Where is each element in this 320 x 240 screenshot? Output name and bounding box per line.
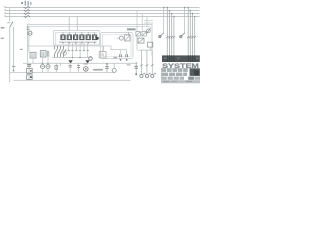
meter circle S1 [63, 52, 67, 56]
contactor row link [59, 41, 97, 43]
fuse F11 tick [12, 65, 16, 67]
cable W1 core 2 [169, 11, 171, 56]
label -Q1 [1, 27, 5, 29]
cable W2 core 2 [189, 11, 191, 56]
wire tap right 1 [136, 11, 138, 32]
label dash [127, 64, 131, 66]
cable W2 core 1 [187, 8, 189, 56]
cable W1 marker [159, 33, 164, 38]
wire X1 drop [103, 46, 105, 52]
incomer coil circle [28, 31, 32, 35]
contact pair CP1 [120, 50, 122, 61]
banner block [162, 55, 200, 62]
fuse Q0 pole 1 [24, 6, 30, 9]
fuse F12 [55, 63, 58, 72]
contactor K3 [74, 32, 78, 43]
divider wire [28, 46, 127, 50]
cable W2 core 3 [192, 14, 194, 56]
meter P1 [41, 65, 45, 69]
label TS35 [127, 28, 136, 30]
drop d3 [75, 43, 77, 51]
contactor K6 [92, 32, 96, 43]
title table row1 cells [162, 69, 188, 72]
wire stub pair [144, 21, 153, 23]
connector arrow B [85, 60, 89, 63]
panel inner bus [10, 71, 114, 73]
bus L2 [5, 10, 200, 12]
fuse F13a [69, 63, 72, 72]
cable W1 leader [163, 8, 165, 34]
fuse Q0 pole 2 [24, 9, 30, 12]
meter P3 [84, 64, 89, 71]
enclosure box A1 [28, 25, 153, 64]
socket drop 3 [151, 50, 156, 77]
relay box R2 [142, 32, 146, 36]
fuse F14 [105, 63, 109, 72]
cable W1 core 1 [166, 8, 168, 56]
label panel [93, 69, 103, 71]
label left 2 [1, 38, 4, 39]
panel bottom edge [14, 79, 131, 81]
bus L1 [5, 7, 200, 9]
fuse Q0 pole 3 [24, 12, 30, 15]
relay box R1 [136, 32, 140, 36]
logo block dark [190, 69, 200, 76]
fuse F15 [134, 62, 138, 75]
node W1 taps [167, 7, 169, 9]
cable W2 ticks [187, 36, 196, 38]
bus N [5, 16, 200, 18]
subpanel box [54, 31, 100, 46]
node W2 taps [187, 7, 189, 9]
contactor K5 [86, 32, 90, 43]
wire feeder drop [9, 8, 11, 22]
contactor K1 [61, 32, 65, 43]
switch group S1 [55, 46, 67, 57]
cable W2 marker [180, 33, 185, 38]
wire feeder vertical a [9, 27, 11, 82]
wire distribution [137, 36, 152, 50]
wire feeder vertical b [13, 27, 15, 72]
stub tick [59, 63, 61, 66]
drop d6 [87, 43, 89, 58]
terminal block T2 [40, 51, 49, 57]
banner cable streaks [167, 55, 194, 62]
cable W1 core 3 [171, 14, 173, 56]
relay box R3 [138, 38, 144, 43]
contactor K4 [80, 32, 84, 43]
bus L3 [5, 13, 200, 15]
meter circle mid [89, 57, 93, 61]
cable W2 core 4 [194, 17, 196, 56]
drop d4 [79, 43, 81, 58]
terminal box X1 [99, 52, 106, 58]
module box inner [103, 35, 132, 57]
device stack D1 [27, 63, 33, 79]
motor circle [119, 36, 123, 40]
label bus names [21, 1, 31, 6]
title table row3 cells [162, 77, 200, 80]
node feeder junction [13, 69, 15, 71]
label CP [114, 57, 117, 58]
drop d2 [71, 43, 73, 58]
drop d5 [83, 43, 85, 51]
socket drop 2 [145, 50, 150, 77]
cable W1 ticks [166, 36, 175, 38]
wire lower bus [52, 57, 92, 59]
wire incomer drop [28, 30, 30, 52]
switch S2 [147, 28, 151, 34]
wire tap right 2 [141, 14, 143, 32]
contact pair CP2 [126, 50, 128, 61]
incomer device bars [27, 27, 30, 29]
node bus junction 1 [72, 57, 74, 59]
title table border [161, 68, 199, 83]
breaker Q1 tick [7, 22, 10, 24]
module box outer [101, 33, 134, 59]
wire meter leads [43, 63, 49, 72]
coil box C1 [148, 42, 153, 47]
fuse F13b [77, 63, 80, 72]
panel top edge [23, 62, 138, 64]
wire T drops [33, 57, 48, 63]
node meter taps [42, 63, 43, 64]
drop d1 [68, 43, 70, 51]
meter P4 [112, 63, 116, 72]
node row end [96, 37, 99, 40]
wire bus tap 1 [68, 17, 70, 31]
fuse Q0 pole 4 [24, 15, 30, 18]
connector arrow A [68, 60, 72, 63]
subpanel inner border [56, 32, 98, 45]
title table bottom strip [162, 80, 200, 83]
bus entry ticks [5, 6, 7, 16]
contactor K2 [67, 32, 71, 43]
terminal block T1 [30, 52, 36, 58]
meter P2 [46, 65, 50, 69]
enclosure inner top line [30, 26, 151, 28]
relay box module [125, 35, 130, 41]
cable W2 leader [184, 8, 186, 34]
wire bus tap 2 [76, 17, 78, 31]
node bus junction 2 [79, 57, 81, 59]
cable W1 core 4 [173, 17, 175, 56]
wire tap right 3 [146, 17, 148, 28]
breaker Q1 blade [10, 22, 13, 28]
title table row2 cells [162, 73, 188, 76]
label left 3 [20, 49, 23, 50]
socket drop 1 [140, 50, 145, 77]
